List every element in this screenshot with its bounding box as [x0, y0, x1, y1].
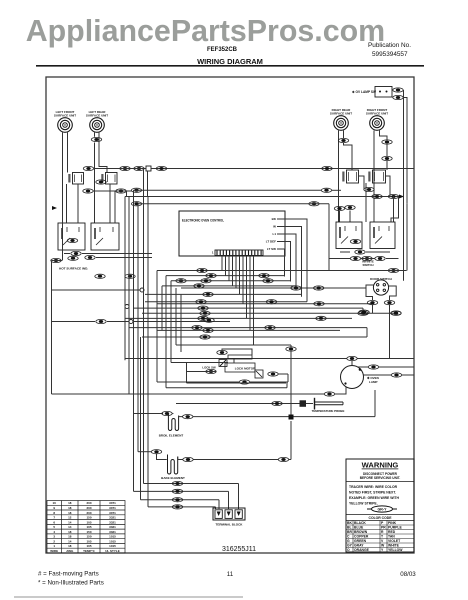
connector inf3 out: [355, 250, 365, 254]
svg-text:18: 18: [68, 511, 72, 515]
temperature probe plug: [300, 400, 314, 407]
eoc connector strip P1: [212, 250, 263, 256]
wire probe feed: [176, 403, 300, 405]
svg-text:PR: PR: [381, 525, 386, 529]
svg-text:1015: 1015: [109, 544, 116, 548]
door switch: [373, 280, 388, 295]
svg-text:✱ OV LAMP SW: ✱ OV LAMP SW: [352, 90, 376, 94]
svg-text:AWG: AWG: [66, 549, 74, 553]
svg-text:GY: GY: [347, 543, 353, 547]
svg-text:SURFACE UNIT: SURFACE UNIT: [330, 112, 352, 116]
wire eoc drop: [253, 256, 255, 345]
wire: [52, 321, 96, 323]
switch left rear surface: [101, 173, 117, 185]
wire: [187, 371, 217, 373]
svg-text:L1: L1: [272, 232, 276, 236]
svg-text:150: 150: [86, 530, 91, 534]
connector feed: [172, 505, 182, 509]
svg-text:BL: BL: [347, 525, 352, 529]
wire hot surface branch: [52, 289, 140, 291]
wire coil R1 lead b: [343, 131, 345, 139]
svg-text:TAN: TAN: [388, 534, 395, 538]
connector lamp r1: [368, 365, 378, 369]
connector hot surface: [51, 258, 61, 262]
wire to terminal: [215, 507, 217, 509]
wire left vertical: [137, 204, 139, 452]
label right rear surface unit: [330, 108, 352, 116]
svg-text:BR: BR: [347, 530, 352, 534]
wire left vertical: [143, 169, 145, 484]
wire terminal feed: [144, 483, 239, 485]
wire drop from junction: [147, 171, 149, 197]
svg-text:TERMINAL BLOCK: TERMINAL BLOCK: [216, 523, 244, 527]
wire eoc drop: [228, 256, 230, 281]
connector lock c: [206, 369, 216, 373]
connector bus left: [176, 279, 186, 283]
wire lamp feed: [125, 358, 347, 360]
wire: [372, 305, 374, 313]
wire: [391, 197, 399, 223]
wire: [52, 260, 63, 262]
wire: [351, 361, 353, 366]
wire bus turn down: [328, 204, 330, 271]
connector door a: [367, 301, 377, 305]
title underline: [36, 65, 424, 67]
connector mid r: [314, 286, 324, 290]
svg-text:YELLOW STRIPE.: YELLOW STRIPE.: [349, 502, 378, 506]
wire: [62, 169, 64, 261]
temperature probe: [315, 398, 344, 410]
connector inf5 out: [375, 256, 385, 260]
connector bus r2: [309, 202, 319, 206]
connector ov lamp 1: [393, 88, 403, 92]
wire: [286, 382, 288, 388]
wire: [329, 258, 350, 260]
svg-text:14: 14: [68, 525, 72, 529]
wire: [361, 258, 375, 260]
connector mid: [197, 268, 207, 272]
wire bus: [171, 280, 291, 282]
svg-text:ORANGE: ORANGE: [354, 548, 370, 552]
wire: [294, 416, 376, 418]
svg-text:3071: 3071: [109, 511, 116, 515]
connector: [125, 274, 135, 278]
svg-text:W: W: [273, 225, 276, 229]
wire: [193, 416, 289, 418]
connector rsw a: [364, 187, 374, 191]
svg-text:5995394557: 5995394557: [372, 51, 408, 58]
svg-text:TEMP°C: TEMP°C: [83, 549, 96, 553]
svg-text:UL STYLE: UL STYLE: [105, 549, 119, 553]
connector mid: [194, 284, 204, 288]
svg-text:PINK: PINK: [388, 521, 397, 525]
svg-text:3321: 3321: [109, 530, 116, 534]
connector bus a: [131, 188, 141, 192]
wire: [335, 387, 346, 395]
wire eoc drop: [246, 256, 248, 318]
wire: [402, 374, 414, 376]
wire bake in: [157, 454, 167, 460]
wire: [82, 253, 152, 255]
marker arrow on left border: [52, 206, 57, 210]
wire bus: [162, 285, 296, 287]
oven lamp switch: [375, 87, 392, 98]
connector hot surface b: [68, 256, 78, 260]
warning subtitle: [360, 472, 401, 480]
switch right rear surface: [342, 170, 358, 183]
wire bus: [125, 317, 352, 319]
wire bus: [157, 329, 340, 331]
wire: [172, 413, 173, 415]
wire: [96, 257, 152, 259]
svg-text:14: 14: [68, 539, 72, 543]
wire: [250, 381, 289, 383]
svg-text:BROWN: BROWN: [354, 530, 368, 534]
wire jog: [366, 328, 368, 337]
connector mid r: [266, 300, 276, 304]
svg-text:LT SW: LT SW: [267, 247, 276, 251]
wire gauge table text: [50, 501, 119, 553]
junction square node: [146, 166, 151, 171]
wire: [114, 191, 116, 223]
svg-text:200: 200: [86, 501, 91, 505]
svg-text:08/03: 08/03: [400, 571, 416, 578]
connector rsw c: [388, 194, 398, 198]
svg-text:* = Non-Illustrated Parts: * = Non-Illustrated Parts: [38, 580, 104, 587]
wire top bus: [94, 168, 147, 170]
wire: [107, 321, 230, 323]
svg-text:YELLOW: YELLOW: [388, 548, 403, 552]
connector mid r2: [359, 310, 369, 314]
svg-text:# = Fast-moving Parts: # = Fast-moving Parts: [38, 571, 99, 578]
svg-text:LAMP: LAMP: [369, 380, 378, 384]
marker arrow at right bus end: [399, 195, 404, 199]
svg-text:BAKE ELEMENT: BAKE ELEMENT: [161, 476, 185, 480]
connector inf3: [350, 239, 360, 243]
wire: [289, 459, 291, 461]
svg-text:3321: 3321: [109, 516, 116, 520]
wire bus: [157, 303, 374, 305]
svg-text:1015: 1015: [109, 539, 116, 543]
wire: [374, 390, 376, 417]
connector L2: [91, 137, 101, 141]
wire jog: [362, 308, 364, 313]
svg-text:BLUE: BLUE: [354, 525, 364, 529]
svg-text:150: 150: [86, 516, 91, 520]
connector mid r: [391, 311, 401, 315]
svg-text:BLACK: BLACK: [354, 521, 366, 525]
svg-text:200: 200: [86, 511, 91, 515]
wire: [171, 362, 228, 364]
svg-text:3321: 3321: [109, 520, 116, 524]
wire left vertical: [170, 281, 172, 363]
svg-text:18: 18: [68, 544, 72, 548]
wire: [126, 191, 128, 197]
connector: [286, 347, 296, 351]
oven lamp circle: [341, 366, 364, 389]
wire terminal feed: [134, 490, 229, 492]
wire terminal feed: [141, 499, 220, 501]
connector lamp b: [324, 392, 334, 396]
connector mid r: [316, 316, 326, 320]
connector lock b: [268, 372, 278, 376]
scan artifact line: [14, 596, 243, 598]
svg-text:1015: 1015: [109, 535, 116, 539]
svg-text:VIOLET: VIOLET: [388, 539, 401, 543]
wire eoc drop: [232, 256, 234, 286]
wire: [166, 387, 287, 389]
svg-text:BROIL ELEMENT: BROIL ELEMENT: [159, 434, 184, 438]
svg-text:11: 11: [227, 571, 234, 578]
label right front surface unit: [366, 108, 388, 116]
connector mid r: [263, 279, 273, 283]
svg-text:RED: RED: [388, 530, 396, 534]
connector inf1: [67, 238, 77, 242]
connector mid: [204, 318, 214, 322]
connector broil a: [162, 411, 172, 415]
svg-text:COLOR CODE: COLOR CODE: [369, 516, 393, 520]
connector rsw d: [334, 206, 344, 210]
coil right rear surface unit: [334, 116, 349, 131]
wire right bus 1 lower: [403, 191, 405, 281]
wire terminal feed: [148, 506, 216, 508]
svg-text:SWITCH: SWITCH: [362, 263, 373, 267]
wire: [339, 211, 341, 222]
wire: [233, 359, 235, 363]
wire bus: [145, 301, 307, 303]
connector mid r: [358, 311, 368, 315]
connector R1: [338, 138, 348, 142]
wire right bus 1: [403, 90, 405, 191]
label infinite switch: [362, 260, 374, 267]
wire to infinite switch: [94, 143, 96, 224]
wire left vertical: [156, 271, 158, 383]
lock switch bar: [228, 355, 252, 359]
wire right bus 2 lower: [406, 204, 408, 271]
wire coil L2 lead b: [99, 133, 107, 173]
connector mid r: [314, 302, 324, 306]
wire bake feed: [138, 451, 151, 453]
svg-text:BK: BK: [347, 521, 352, 525]
connector mid: [198, 306, 208, 310]
connector broil b: [183, 415, 193, 419]
wire lamp feed right: [357, 358, 414, 360]
wire eoc drop: [221, 256, 223, 271]
svg-text:G: G: [347, 539, 350, 543]
wire: [359, 176, 364, 190]
wire bus: [142, 312, 395, 314]
connector mid: [200, 311, 210, 315]
connector: [95, 274, 105, 278]
connector bake b: [183, 457, 193, 461]
connector mid: [192, 326, 202, 330]
wire left vertical: [140, 337, 142, 500]
wire to terminal: [228, 491, 230, 509]
wire: [332, 189, 342, 191]
connector mid: [200, 335, 210, 339]
wire: [186, 363, 188, 384]
svg-text:105: 105: [86, 525, 91, 529]
connector bus a2: [131, 202, 141, 206]
switch left front surface: [68, 173, 83, 185]
svg-text:O: O: [347, 548, 350, 552]
svg-text:AppliancePartsPros.com: AppliancePartsPros.com: [26, 14, 386, 48]
coil right front surface unit: [370, 116, 385, 131]
wire: [386, 144, 388, 156]
connector lock d: [239, 380, 249, 384]
diagram border: [46, 77, 414, 553]
wire broil feed: [134, 413, 164, 415]
wire left vertical: [133, 190, 135, 491]
wire drop from top bus: [143, 169, 145, 204]
wire mid bus 2: [138, 203, 329, 205]
connector rsw e: [345, 205, 355, 209]
connector sw2 left: [96, 180, 106, 184]
wire left vertical: [147, 197, 149, 507]
connector probe: [272, 401, 282, 405]
svg-text:LOCK SW: LOCK SW: [202, 366, 216, 370]
connector lamp a: [347, 356, 357, 360]
wire: [77, 184, 79, 223]
wire left vertical: [180, 294, 182, 352]
broil element: [168, 414, 178, 431]
svg-text:12: 12: [68, 516, 72, 520]
svg-text:3071: 3071: [109, 506, 116, 510]
svg-text:BEFORE SERVICING UNIT.: BEFORE SERVICING UNIT.: [360, 476, 401, 480]
wire: [187, 382, 287, 384]
infinite switch left rear: [91, 223, 119, 250]
wire coil R2 lead a: [373, 131, 375, 223]
electronic oven control box: [179, 211, 285, 256]
svg-text:WIRING DIAGRAM: WIRING DIAGRAM: [197, 57, 263, 66]
wire: [179, 416, 183, 417]
svg-text:TRACER WIRE: WIRE COLOR: TRACER WIRE: WIRE COLOR: [349, 485, 398, 489]
connector inf1 out: [71, 251, 81, 255]
wire coil L2 lead a: [94, 133, 96, 137]
wire: [287, 374, 289, 382]
wire: [402, 89, 404, 91]
connector bus c: [322, 166, 332, 170]
junction circle: [129, 320, 133, 324]
connector lock a: [217, 350, 227, 354]
wire coil R1 lead a: [338, 131, 340, 223]
coil left front surface unit: [58, 118, 73, 133]
warning box: [346, 459, 414, 552]
infinite switch right front: [370, 222, 395, 249]
svg-text:316255J11: 316255J11: [222, 546, 256, 553]
wire eoc drop: [242, 256, 244, 304]
svg-text:105: 105: [86, 539, 91, 543]
connector mid: [196, 300, 206, 304]
wire: [386, 176, 391, 197]
svg-text:LOCK MOTOR: LOCK MOTOR: [235, 367, 256, 371]
svg-text:WIRE: WIRE: [50, 549, 58, 553]
svg-text:LT DEF: LT DEF: [266, 240, 276, 244]
svg-text:SURFACE UNIT: SURFACE UNIT: [54, 114, 76, 118]
svg-text:3071: 3071: [109, 501, 116, 505]
connector bus r1: [321, 188, 331, 192]
connector ov lamp 2: [393, 95, 403, 99]
warning paragraph: [349, 485, 399, 506]
connector mid: [206, 274, 216, 278]
connector lamp r2: [391, 373, 401, 377]
bake element: [168, 455, 178, 475]
connector sw1 top: [83, 166, 93, 170]
wire coil R2 lead b: [380, 131, 388, 140]
junction block: [289, 415, 294, 420]
wire bus: [145, 293, 302, 295]
connector bake a: [151, 450, 161, 454]
svg-text:GR-Y: GR-Y: [378, 508, 388, 512]
wire: [157, 381, 240, 383]
color code table: [346, 514, 414, 516]
svg-text:14: 14: [68, 520, 72, 524]
wire: [392, 89, 393, 91]
wire eoc drop: [235, 256, 237, 288]
svg-text:HOT SURFACE IND.: HOT SURFACE IND.: [59, 267, 88, 271]
wire: [389, 305, 391, 359]
wire left vertical: [175, 288, 177, 345]
connector row3: [388, 268, 398, 272]
svg-text:ELECTRONIC OVEN CONTROL: ELECTRONIC OVEN CONTROL: [182, 219, 224, 223]
wire: [349, 211, 351, 223]
wire left vertical: [161, 286, 163, 331]
svg-text:GRAY: GRAY: [354, 543, 364, 547]
junction circle: [125, 305, 129, 309]
connector: [96, 319, 106, 323]
wire to terminal: [238, 484, 240, 510]
wire: [290, 421, 292, 460]
wire lamp right 2: [363, 374, 391, 376]
terminal block: [213, 508, 245, 520]
connector sw2 top: [120, 166, 130, 170]
svg-text:150: 150: [86, 535, 91, 539]
wire left vertical: [124, 197, 126, 361]
connector R2b: [382, 156, 392, 160]
label left rear surface unit: [86, 110, 108, 118]
coil left rear surface unit: [90, 118, 105, 133]
infinite switch right rear: [336, 222, 362, 249]
wire eoc drop: [225, 256, 227, 276]
wire lamp return: [52, 393, 325, 395]
wire coil L1 lead a: [62, 133, 64, 169]
svg-text:NOTED FIRST, STRIPE NEXT.: NOTED FIRST, STRIPE NEXT.: [349, 491, 396, 495]
wire: [366, 251, 390, 253]
wire coil R1 lead b2: [344, 143, 353, 170]
warning divider: [346, 481, 414, 483]
wire left edge long: [51, 261, 53, 395]
wire mid bus 3: [125, 196, 399, 198]
svg-text:18: 18: [68, 506, 72, 510]
wire bus: [157, 270, 407, 272]
svg-text:Publication No.: Publication No.: [368, 42, 411, 49]
svg-text:PURPLE: PURPLE: [388, 525, 402, 529]
wire mid bus: [134, 189, 322, 191]
connector mid r: [259, 274, 269, 278]
connector mid: [203, 328, 213, 332]
wire: [340, 251, 350, 253]
svg-text:SURFACE UNIT: SURFACE UNIT: [366, 112, 388, 116]
connector: [359, 310, 369, 314]
wire bus: [142, 336, 367, 338]
svg-text:SURFACE UNIT: SURFACE UNIT: [86, 114, 108, 118]
wire: [93, 190, 132, 192]
wire: [379, 366, 414, 368]
wire lamp right 1: [358, 366, 369, 368]
wire: [127, 190, 133, 192]
connector bake c: [278, 457, 288, 461]
svg-text:3321: 3321: [109, 525, 116, 529]
